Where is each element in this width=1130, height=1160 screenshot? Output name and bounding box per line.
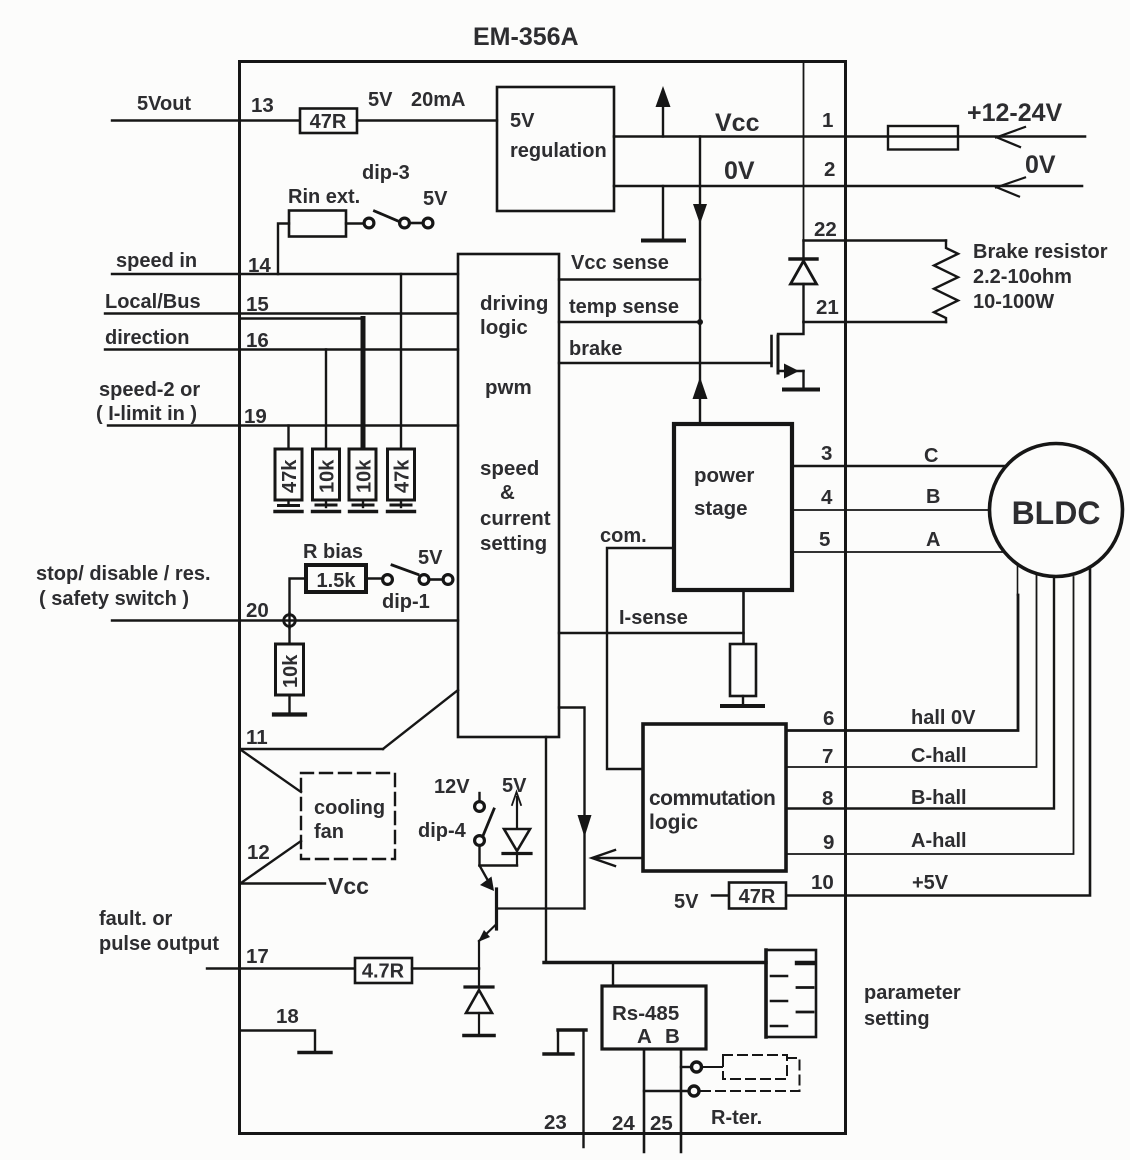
wire 4.7R to transistor xyxy=(412,967,479,969)
svg-text:cooling: cooling xyxy=(314,797,385,819)
svg-text:commutation: commutation xyxy=(649,787,775,810)
svg-text:0V: 0V xyxy=(1025,151,1056,179)
svg-text:I-sense: I-sense xyxy=(619,607,688,629)
wire pin12 diagonal to fan xyxy=(241,841,301,883)
block U-commutation-logic xyxy=(643,724,786,871)
svg-text:8: 8 xyxy=(822,787,833,810)
main board enclosure box EM-356A xyxy=(240,62,846,1134)
svg-text:regulation: regulation xyxy=(510,140,607,162)
junction pin20 circle-cross xyxy=(284,613,296,628)
resistor 10k pull-down at x=363 xyxy=(349,449,377,512)
wire col to 1.5k xyxy=(290,579,307,614)
resistor 47k pull-down at x=401 xyxy=(388,449,415,512)
wire Vcc rail xyxy=(614,135,1085,138)
svg-text:dip-4: dip-4 xyxy=(418,820,467,842)
svg-text:R-ter.: R-ter. xyxy=(711,1107,762,1129)
svg-text:driving: driving xyxy=(480,292,548,315)
svg-text:A-hall: A-hall xyxy=(911,830,967,852)
svg-text:4.7R: 4.7R xyxy=(362,961,405,983)
wire C-hall (pin7) xyxy=(786,575,1037,767)
svg-text:dip-3: dip-3 xyxy=(362,162,410,184)
wire pin11 diagonal to driving logic xyxy=(383,690,458,749)
svg-text:brake: brake xyxy=(569,338,622,360)
svg-text:25: 25 xyxy=(650,1112,673,1135)
svg-text:A: A xyxy=(926,529,940,551)
svg-text:16: 16 xyxy=(246,329,269,352)
svg-text:4: 4 xyxy=(821,486,833,509)
junction temp sense xyxy=(697,319,703,325)
svg-text:5V: 5V xyxy=(423,188,448,210)
block U-Rs-485 xyxy=(602,986,706,1049)
resistor Rin ext. xyxy=(289,211,346,237)
svg-text:21: 21 xyxy=(816,296,839,319)
wire +5V (pin10) xyxy=(786,568,1090,896)
wire driving logic to transistor column xyxy=(559,708,585,909)
svg-text:logic: logic xyxy=(649,811,698,834)
svg-text:13: 13 xyxy=(251,94,274,117)
wire bottom bus (thick) xyxy=(544,961,766,964)
arrowhead 0V input xyxy=(996,178,1025,197)
wire speed in (pin14) xyxy=(112,273,458,275)
svg-text:Brake resistor: Brake resistor xyxy=(973,241,1108,263)
svg-text:9: 9 xyxy=(823,831,834,854)
svg-text:1.5k: 1.5k xyxy=(317,570,357,592)
svg-text:logic: logic xyxy=(480,316,528,339)
wire stub row15b xyxy=(241,317,363,319)
wire Rs-485 stub xyxy=(612,963,614,987)
terminal circle1 xyxy=(692,1062,702,1072)
svg-text:5: 5 xyxy=(819,528,830,551)
wire I-sense xyxy=(559,632,744,634)
svg-text:20mA: 20mA xyxy=(411,89,465,111)
svg-text:2.2-10ohm: 2.2-10ohm xyxy=(973,266,1072,288)
svg-text:fault. or: fault. or xyxy=(99,908,173,930)
svg-text:0V: 0V xyxy=(724,157,755,185)
svg-text:10k: 10k xyxy=(354,459,376,493)
wire phase B (pin4) xyxy=(792,509,990,511)
diode D-output clamp xyxy=(464,969,494,1036)
svg-text:22: 22 xyxy=(814,218,837,241)
svg-text:1: 1 xyxy=(822,109,833,132)
wire pin21 to brake resistor xyxy=(804,321,947,323)
svg-text:A: A xyxy=(637,1025,652,1048)
svg-text:5V: 5V xyxy=(418,547,443,569)
wire power stage to sense resistor xyxy=(742,590,745,644)
svg-text:+12-24V: +12-24V xyxy=(967,99,1063,127)
resistor 10k (pin20 pulldown) xyxy=(274,628,305,715)
svg-text:11: 11 xyxy=(246,726,268,749)
wire Vcc-to-powerstage column xyxy=(699,137,701,425)
motor BLDC circle xyxy=(990,444,1123,577)
ground below sense resistor xyxy=(722,696,763,706)
svg-text:speed: speed xyxy=(480,457,539,480)
svg-text:17: 17 xyxy=(246,945,269,968)
wire com. xyxy=(607,548,674,769)
svg-text:setting: setting xyxy=(864,1008,930,1030)
block U-5Vreg 5V regulation xyxy=(497,87,614,211)
resistor R bias 1.5k xyxy=(306,565,366,592)
switch dip-4 xyxy=(475,793,494,845)
wire phase C (pin3) xyxy=(792,465,1005,468)
svg-text:R bias: R bias xyxy=(303,541,363,563)
wire 47R to 5V regulation xyxy=(357,119,497,121)
wire A-hall (pin9) xyxy=(786,577,1074,854)
svg-text:speed in: speed in xyxy=(116,250,197,272)
resistor 10k pull-down at x=326 xyxy=(313,449,340,512)
wire speed-2 (pin19) xyxy=(108,424,458,426)
svg-text:24: 24 xyxy=(612,1112,635,1135)
fuse F1 xyxy=(888,126,958,150)
svg-text:hall 0V: hall 0V xyxy=(911,707,976,729)
svg-text:47k: 47k xyxy=(392,459,414,493)
diode D-brake xyxy=(790,241,817,323)
resistor brake (zigzag) xyxy=(934,241,958,323)
arrowhead down on column xyxy=(693,204,707,224)
svg-text:Local/Bus: Local/Bus xyxy=(105,291,201,313)
wire Rin to dip-3 xyxy=(346,222,363,224)
svg-text:stage: stage xyxy=(694,497,748,520)
wire column to 10k #1 xyxy=(325,350,327,450)
arrowhead up on column xyxy=(693,377,708,399)
svg-text:fan: fan xyxy=(314,821,344,843)
ground below 0V rail xyxy=(643,186,684,241)
svg-text:B: B xyxy=(926,486,940,508)
transistor Q-brake MOSFET xyxy=(772,322,819,390)
svg-text:+5V: +5V xyxy=(912,872,949,894)
wire pin11 xyxy=(240,748,383,750)
block U-power-stage xyxy=(674,424,792,590)
wire dip4/diode junction xyxy=(480,847,518,891)
svg-text:5V: 5V xyxy=(502,775,527,797)
svg-text:direction: direction xyxy=(105,327,189,349)
block U-driving-logic xyxy=(458,254,559,737)
svg-text:( I-limit in ): ( I-limit in ) xyxy=(96,403,197,425)
wire pin11 diagonal to cooling fan xyxy=(241,750,301,792)
block cooling fan (dashed) xyxy=(301,773,395,859)
wire Vcc sense xyxy=(559,278,700,280)
svg-text:12: 12 xyxy=(247,841,270,864)
resistor R-ter (dashed) xyxy=(701,1055,800,1091)
svg-text:parameter: parameter xyxy=(864,982,961,1004)
svg-text:5Vout: 5Vout xyxy=(137,93,191,115)
wire 1.5k to dip-1 xyxy=(366,577,381,579)
svg-text:Rin ext.: Rin ext. xyxy=(288,186,360,208)
svg-text:pulse output: pulse output xyxy=(99,933,219,955)
svg-text:5V: 5V xyxy=(368,89,393,111)
connector parameter setting xyxy=(766,950,816,1037)
svg-text:power: power xyxy=(694,464,754,487)
svg-text:Vcc sense: Vcc sense xyxy=(571,252,669,274)
wire Rin to speed-in xyxy=(278,224,289,275)
wire column to 10k #2 (thick) xyxy=(361,319,366,450)
wire pin13 external xyxy=(112,119,300,121)
svg-text:15: 15 xyxy=(246,293,269,316)
svg-text:10: 10 xyxy=(811,871,834,894)
wire pin18 stub xyxy=(240,1031,331,1053)
svg-text:7: 7 xyxy=(822,745,833,768)
switch dip-1 xyxy=(383,565,453,584)
svg-text:setting: setting xyxy=(480,532,547,555)
wire pin17 xyxy=(207,967,355,969)
wire driving logic bottom column xyxy=(545,737,547,963)
svg-text:3: 3 xyxy=(821,442,832,465)
diode D-5V clamp xyxy=(503,792,531,866)
wire internal column x=803 xyxy=(803,62,805,241)
wire temp sense xyxy=(559,321,700,323)
wire pin22 to brake resistor xyxy=(804,239,947,241)
switch dip-3 xyxy=(364,211,433,228)
wire brake xyxy=(559,362,772,364)
svg-text:20: 20 xyxy=(246,599,269,622)
wire pin12 Vcc stub xyxy=(241,882,325,884)
wire 0V rail xyxy=(614,185,1082,188)
terminal circle2 xyxy=(689,1086,699,1096)
resistor 4.7R xyxy=(355,958,412,983)
svg-text:10k: 10k xyxy=(317,459,339,493)
svg-text:14: 14 xyxy=(248,254,271,277)
label Brake resistor 2.2-10ohm 10-100W xyxy=(973,241,1108,313)
wire stop row (pin20) xyxy=(112,619,458,621)
svg-text:speed-2 or: speed-2 or xyxy=(99,379,200,401)
wire pin23 pulse symbol xyxy=(544,1030,586,1147)
wire Rs-485 B (pin25) xyxy=(680,1049,683,1152)
resistor R-47R (pin13) xyxy=(300,109,357,134)
svg-text:12V: 12V xyxy=(434,776,470,798)
wire phase A (pin5) xyxy=(792,551,1004,553)
svg-text:2: 2 xyxy=(824,158,835,181)
svg-text:5V: 5V xyxy=(510,110,535,132)
svg-text:6: 6 xyxy=(823,707,834,730)
svg-text:19: 19 xyxy=(244,405,267,428)
svg-text:BLDC: BLDC xyxy=(1012,495,1101,531)
svg-text:47R: 47R xyxy=(310,111,347,133)
arrowhead down on column x=584 xyxy=(578,815,592,837)
svg-text:temp sense: temp sense xyxy=(569,296,679,318)
svg-text:B: B xyxy=(665,1025,680,1048)
svg-text:current: current xyxy=(480,507,551,530)
arrow Vcc up xyxy=(656,86,671,137)
svg-text:Vcc: Vcc xyxy=(715,109,760,137)
svg-text:&: & xyxy=(500,481,515,504)
svg-text:Rs-485: Rs-485 xyxy=(612,1002,679,1025)
svg-text:C: C xyxy=(924,445,938,467)
wire B-hall (pin8) xyxy=(786,578,1054,809)
resistor 47k pull-down at x=288.5 xyxy=(275,449,302,512)
arrowhead Vcc input xyxy=(996,127,1025,147)
svg-text:23: 23 xyxy=(544,1111,567,1134)
svg-text:47k: 47k xyxy=(279,459,301,493)
svg-text:B-hall: B-hall xyxy=(911,787,967,809)
wire column to 47k #2 xyxy=(400,274,402,449)
svg-text:com.: com. xyxy=(600,525,647,547)
svg-text:( safety switch ): ( safety switch ) xyxy=(39,588,189,610)
resistor 47R (pin10) xyxy=(729,883,786,909)
svg-text:pwm: pwm xyxy=(485,376,532,399)
wire commutation feedback arrow xyxy=(592,850,643,866)
wire column to 47k #1 xyxy=(287,426,289,450)
svg-text:stop/ disable / res.: stop/ disable / res. xyxy=(36,563,211,585)
resistor current sense xyxy=(730,644,756,696)
wire hall 0V (pin6) xyxy=(786,566,1018,731)
svg-text:C-hall: C-hall xyxy=(911,745,967,767)
svg-text:47R: 47R xyxy=(739,886,776,908)
svg-text:18: 18 xyxy=(276,1005,299,1028)
wire A to R-ter circle2 xyxy=(644,1090,687,1092)
wire direction (pin16) xyxy=(105,348,458,350)
svg-text:10k: 10k xyxy=(280,654,302,688)
wire B to R-ter circle1 xyxy=(681,1066,690,1068)
svg-text:5V: 5V xyxy=(674,891,699,913)
svg-text:dip-1: dip-1 xyxy=(382,591,430,613)
svg-text:Vcc: Vcc xyxy=(328,873,369,899)
svg-text:EM-356A: EM-356A xyxy=(473,23,579,51)
transistor Q-output xyxy=(478,889,585,969)
wire Local/Bus (pin15) xyxy=(105,312,458,314)
wire 5V stub xyxy=(712,894,729,896)
svg-text:10-100W: 10-100W xyxy=(973,291,1054,313)
wire Rs-485 A (pin24) xyxy=(643,1049,646,1152)
